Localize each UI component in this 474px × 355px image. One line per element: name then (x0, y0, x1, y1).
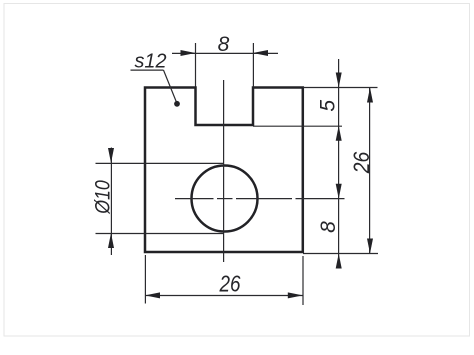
dim D10 left: bottom extension line (96, 233, 225, 235)
dim 5 right: top arrow (336, 73, 342, 88)
dim 8 top: right arrow (253, 50, 268, 56)
leader s12: underline (131, 69, 164, 71)
horizontal centerline (dashed) (175, 198, 214, 200)
dim 5 right: bottom arrow (336, 126, 342, 141)
dim 8 right: bottom arrow (336, 254, 342, 269)
right dims: top extension line (303, 87, 378, 89)
dim D10 left: dimension line (110, 148, 112, 256)
dim 26 right: top arrow (367, 88, 373, 103)
dim D10 left: bottom arrow (108, 233, 114, 248)
svg-text:Ø10: Ø10 (92, 180, 115, 215)
right dims: bottom extension line (303, 253, 378, 255)
dim 26 bottom: right arrow (288, 292, 303, 298)
dim 26 right: bottom arrow (367, 239, 373, 254)
svg-text:s12: s12 (135, 50, 167, 72)
dim 8 top: right extension line (252, 43, 254, 87)
dim 26 right: dimension line (369, 88, 371, 254)
svg-text:26: 26 (219, 271, 241, 297)
dim 26 bottom: right extension line (302, 256, 304, 305)
svg-text:5: 5 (317, 100, 340, 112)
svg-text:8: 8 (317, 221, 340, 233)
svg-text:26: 26 (349, 151, 374, 174)
svg-text:8: 8 (218, 33, 230, 56)
dim D10 left: top arrow (108, 148, 114, 163)
dim 8 top: dimension line (172, 52, 278, 54)
dim D10 left: top extension line (96, 162, 225, 164)
dim 26 bottom: dimension line (145, 295, 303, 297)
dim 26 bottom: left extension line (144, 255, 146, 304)
dim 5/8 right: shared dimension line (338, 59, 340, 265)
hole circle D10 (192, 166, 258, 232)
leader s12: dot on face (174, 101, 180, 107)
part outline (26x26 block with top notch) (145, 88, 303, 253)
dim 26 bottom: left arrow (145, 292, 160, 298)
dim 8 top: left extension line (195, 43, 197, 87)
vertical centerline (223, 80, 225, 262)
dim 8 top: left arrow (181, 50, 196, 56)
right dims: notch-bottom extension line (253, 125, 342, 127)
dim 8 right: top arrow (336, 184, 342, 199)
leader s12: diagonal line (164, 70, 177, 103)
